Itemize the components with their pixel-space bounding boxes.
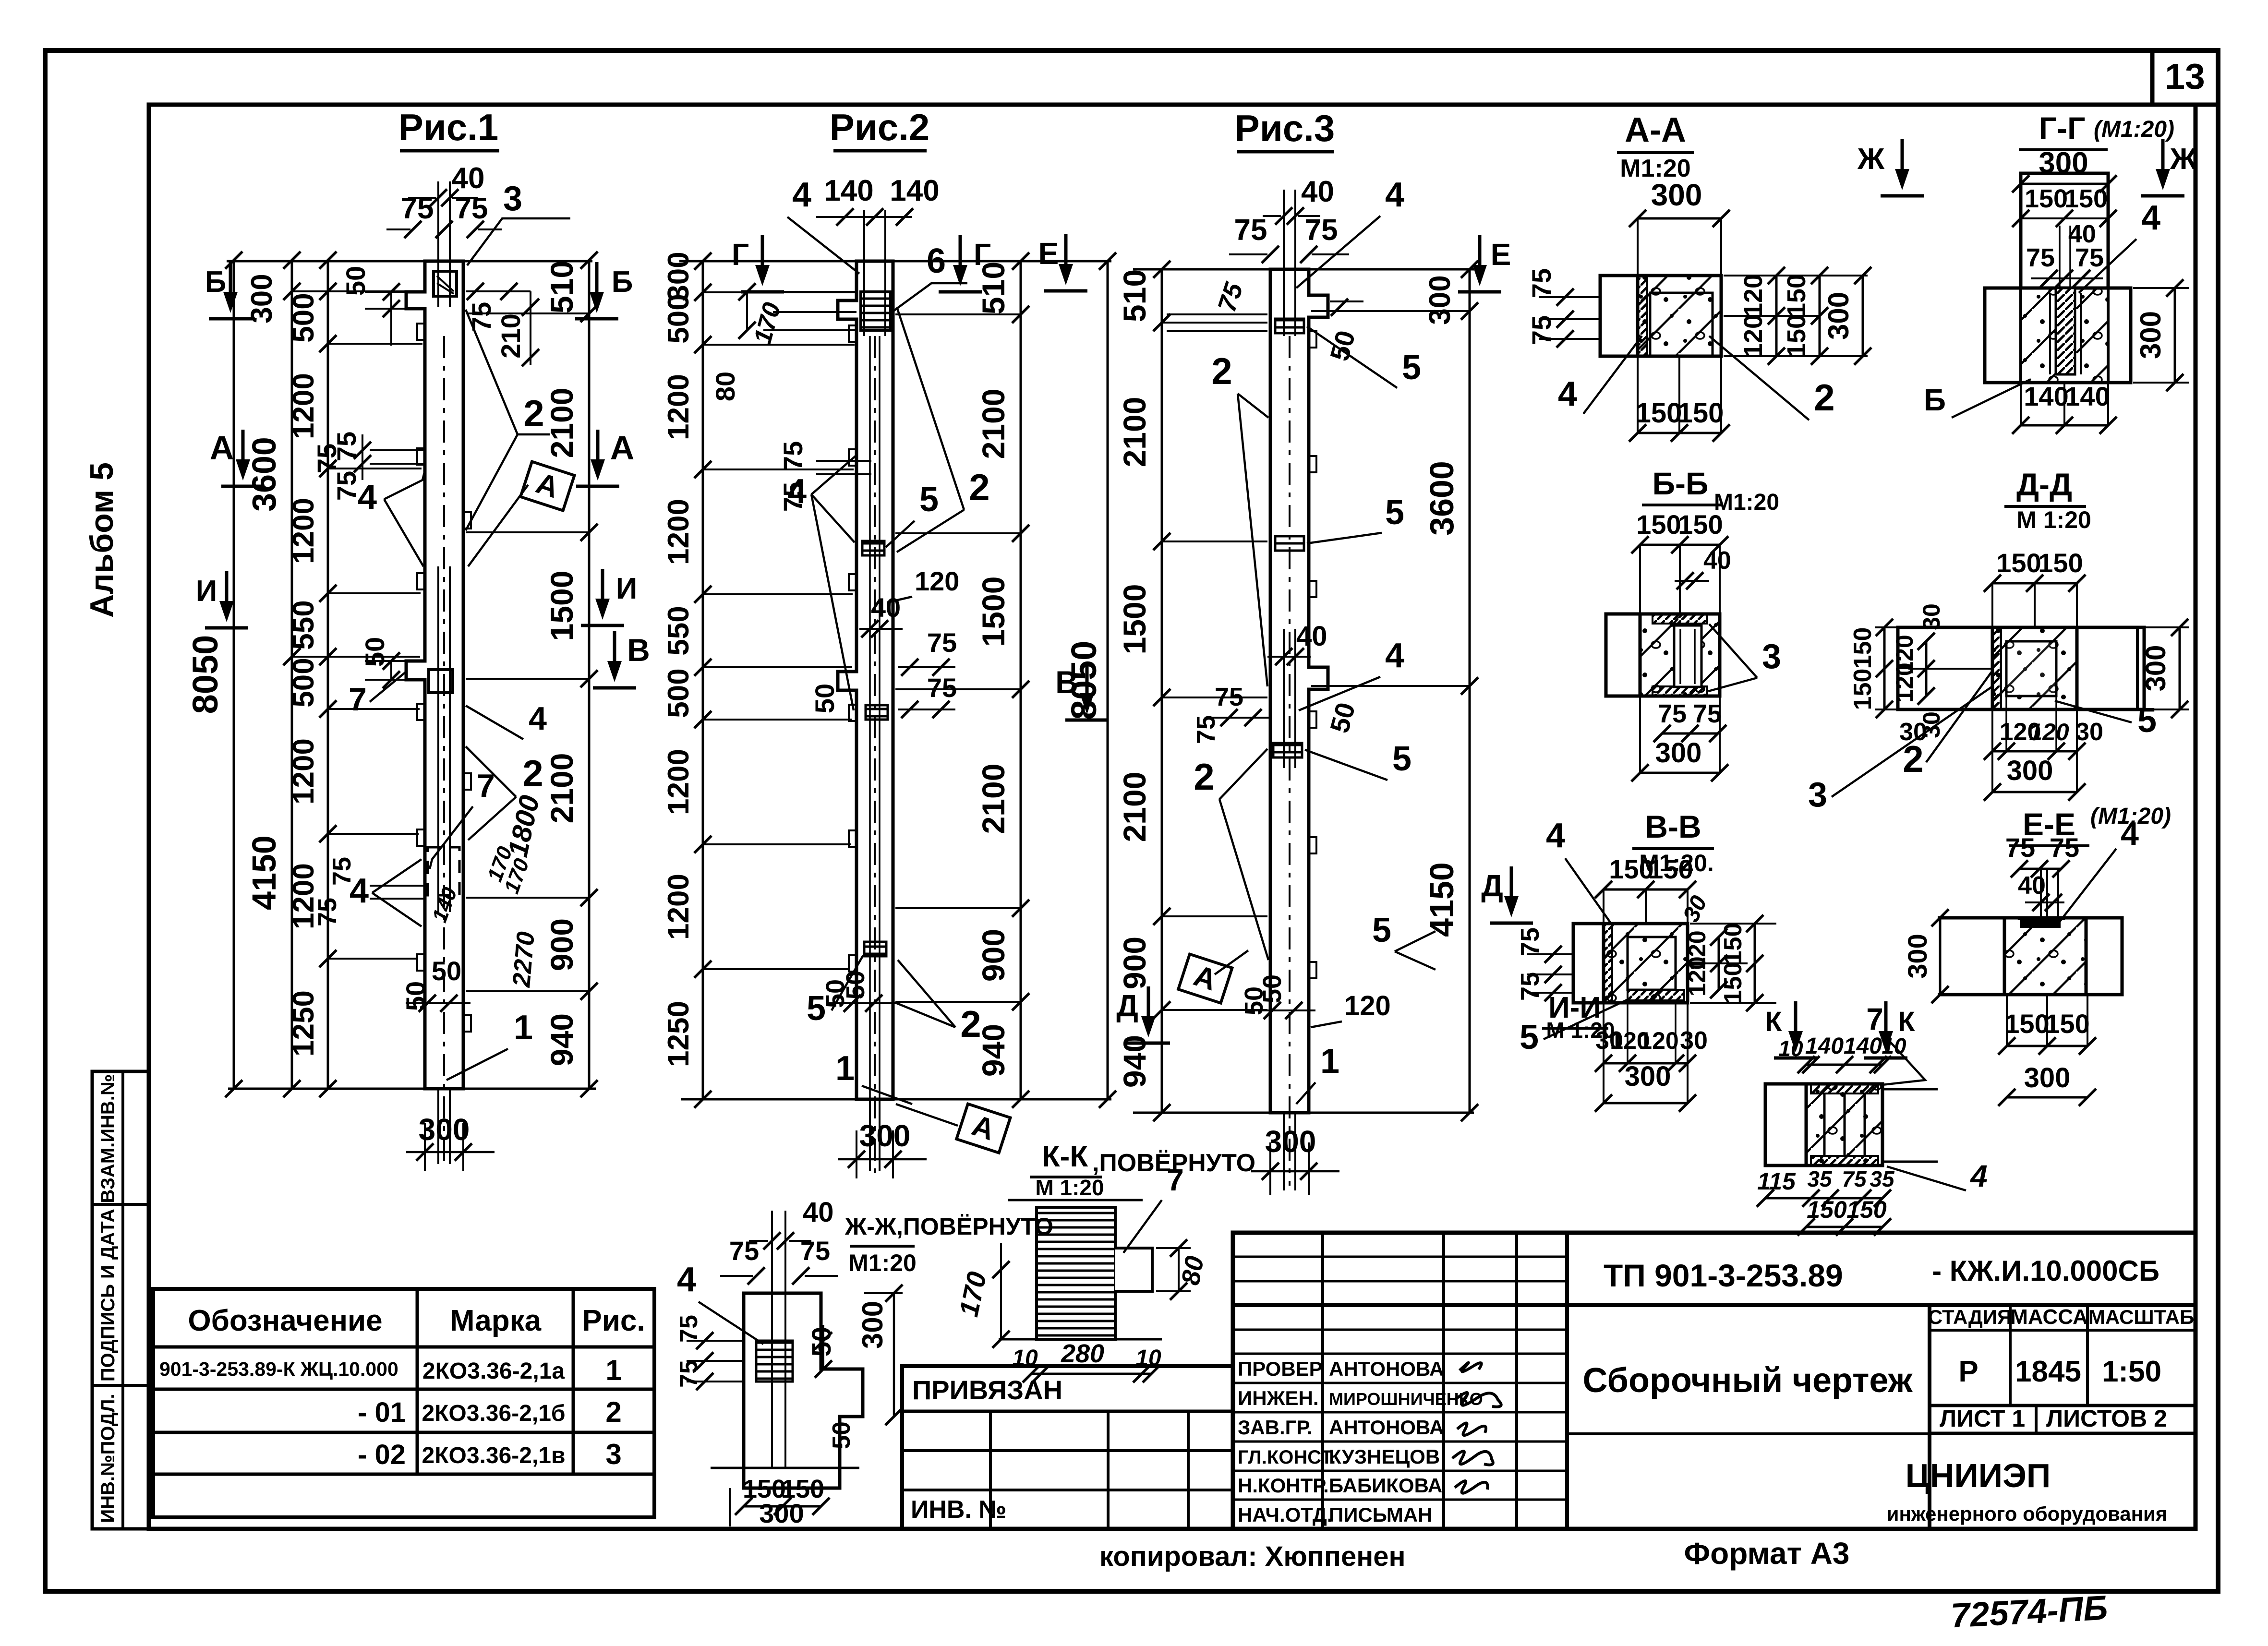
Г-Г right dim 300 [2133,287,2189,289]
svg-text:ИНВ.№ПОДЛ.: ИНВ.№ПОДЛ. [97,1394,119,1523]
svg-text:1200: 1200 [662,499,695,565]
svg-text:4: 4 [1558,375,1577,413]
svg-text:В: В [627,632,650,668]
svg-text:940: 940 [544,1013,579,1066]
svg-text:75: 75 [327,857,356,886]
svg-text:А: А [210,429,234,467]
svg-text:3: 3 [1808,776,1827,814]
svg-text:Р: Р [1958,1355,1978,1388]
Рис.1 overall dimension 8050 [233,260,235,1089]
svg-text:120: 120 [1891,662,1918,702]
svg-text:А-А: А-А [1625,111,1686,149]
svg-text:50: 50 [809,684,840,713]
А-А beam left part [1600,276,1638,356]
svg-text:1250: 1250 [287,990,320,1057]
svg-text:300: 300 [1902,934,1932,978]
svg-text:3600: 3600 [1423,461,1460,536]
svg-text:5: 5 [1392,740,1411,778]
title block: signature rows [1233,1382,1567,1384]
Рис.1 embedded bars (vertical thin lines) [437,181,439,307]
В-В right rotated dim chains [1690,923,1776,925]
svg-text:5: 5 [1402,348,1421,387]
svg-text:ПРОВЕР.: ПРОВЕР. [1238,1358,1325,1380]
svg-text:1500: 1500 [1117,584,1152,655]
Рис.3 Д marker left [1147,986,1150,1025]
svg-text:ЛИСТОВ 2: ЛИСТОВ 2 [2046,1405,2167,1432]
svg-text:75: 75 [1526,315,1556,345]
svg-text:МАСШТАБ: МАСШТАБ [2088,1306,2194,1328]
svg-text:4: 4 [792,176,811,214]
svg-text:150: 150 [1636,397,1682,429]
svg-text:1: 1 [605,1354,621,1386]
svg-text:7: 7 [1866,1002,1883,1036]
В-В concrete section [1604,924,1688,1003]
svg-text:- 02: - 02 [358,1439,406,1470]
svg-text:300: 300 [2140,645,2171,692]
Рис.2 left dimension chain [702,261,704,1099]
svg-text:И: И [616,572,638,605]
svg-text:901-3-253.89-К ЖЦ.10.000: 901-3-253.89-К ЖЦ.10.000 [159,1358,398,1380]
svg-text:ИНВ. №: ИНВ. № [911,1496,1006,1524]
svg-text:75: 75 [675,1315,703,1343]
svg-text:300: 300 [859,1118,911,1153]
Ж-Ж left dims 75 75 [687,1340,744,1342]
svg-text:А: А [610,429,635,467]
svg-text:М 1:20: М 1:20 [1035,1175,1104,1200]
svg-text:ВЗАМ.ИНВ.№: ВЗАМ.ИНВ.№ [97,1074,119,1203]
svg-text:К: К [1765,1006,1782,1037]
Рис.3 intermediate extension lines [1162,322,1267,324]
svg-text:35: 35 [1870,1166,1895,1191]
inner drawing frame [149,105,2196,1529]
svg-text:1200: 1200 [662,749,695,815]
Рис.1 section markers [229,262,232,300]
svg-text:2: 2 [1194,756,1214,798]
svg-text:7: 7 [349,681,367,718]
svg-text:120: 120 [915,566,959,596]
svg-text:К-К: К-К [1042,1140,1088,1173]
svg-text:Рис.1: Рис.1 [398,106,498,148]
Г-Г beam rect [1985,288,2131,383]
svg-text:140: 140 [1805,1033,1844,1059]
svg-text:ЗАВ.ГР.: ЗАВ.ГР. [1238,1416,1313,1439]
svg-text:М 1:20: М 1:20 [1546,1018,1615,1043]
svg-text:120: 120 [1684,956,1711,996]
svg-text:Б-Б: Б-Б [1653,466,1709,501]
svg-text:280: 280 [1061,1339,1104,1368]
svg-text:150: 150 [1782,314,1811,358]
svg-text:75: 75 [729,1236,759,1266]
svg-text:30: 30 [1680,1027,1708,1055]
parts table frame [153,1289,654,1517]
Б-Б concrete section [1640,614,1720,696]
Г-Г upper column part [2021,173,2108,288]
svg-text:Е: Е [1491,237,1511,272]
svg-text:СТАДИЯ: СТАДИЯ [1928,1306,2012,1328]
svg-text:МАССА: МАССА [2010,1305,2088,1329]
Рис.1 mid connector dashed box (item 7) [428,847,459,895]
Рис.1 dimension chain 300..1250 [327,260,329,1089]
svg-text:75: 75 [1693,699,1722,728]
svg-text:75: 75 [1234,214,1267,247]
svg-text:2: 2 [1814,376,1834,419]
Д-Д right dim 300 [2141,626,2189,628]
svg-text:Г: Г [974,237,991,272]
svg-text:3: 3 [503,180,522,218]
svg-text:210: 210 [495,313,526,358]
Е-Е right beam part [2086,918,2122,995]
svg-text:2: 2 [522,752,543,794]
В-В left 75/75 dims [1527,953,1573,955]
Рис.1 right dimension chain 510..940 [588,260,591,1089]
svg-text:300: 300 [2007,755,2053,786]
svg-text:1250: 1250 [662,1001,695,1067]
svg-text:Б: Б [205,265,227,299]
svg-text:2100: 2100 [1117,772,1152,842]
svg-text:5: 5 [807,989,826,1028]
svg-text:4: 4 [1546,817,1565,855]
svg-text:Д-Д: Д-Д [2016,467,2072,502]
И-И left beam part [1765,1084,1806,1165]
Д-Д steel strip left [1992,627,2001,709]
svg-text:ГЛ.КОНСТ.: ГЛ.КОНСТ. [1238,1447,1336,1468]
svg-text:75: 75 [2075,243,2104,272]
К-К plate outline with hatch [1037,1207,1115,1339]
svg-text:140: 140 [824,174,873,207]
svg-text:Формат А3: Формат А3 [1684,1536,1850,1571]
svg-text:300: 300 [1822,292,1855,340]
Е-Е left beam lines [1938,916,2004,920]
svg-text:150: 150 [1677,397,1724,429]
Рис.1 bottom tails [437,1089,439,1164]
Е-Е top plate mark [2021,920,2060,927]
А-А bottom dims 150 150 [1637,356,1639,433]
svg-text:120: 120 [1739,274,1768,317]
svg-text:2100: 2100 [976,389,1011,459]
svg-text:Рис.3: Рис.3 [1235,107,1335,149]
svg-text:4: 4 [529,700,547,737]
Рис.3 top extension line [1133,268,1474,271]
Ж-Ж embedded plate (hatched) [756,1341,793,1382]
В-В beam left part [1573,924,1604,1003]
Рис.1 item 3 leader [467,218,570,265]
svg-text:Г: Г [732,237,749,272]
svg-text:1200: 1200 [287,373,320,439]
svg-text:150: 150 [1849,627,1877,669]
Рис.1 right top detail dims 75 / 210 / 510 [466,290,531,292]
Б-Б inner core [1674,625,1701,687]
svg-text:Ж: Ж [1857,143,1885,176]
svg-text:300: 300 [2135,311,2167,359]
svg-text:150: 150 [1648,854,1693,884]
svg-text:80: 80 [1176,1254,1210,1287]
svg-text:8050: 8050 [185,635,225,714]
svg-text:80: 80 [710,372,740,401]
svg-text:1: 1 [514,1009,533,1047]
svg-text:30: 30 [1918,603,1945,630]
svg-text:1:50: 1:50 [2102,1355,2161,1388]
svg-text:150: 150 [1609,854,1653,884]
svg-text:3: 3 [605,1438,621,1470]
В-В inner core [1628,937,1676,990]
svg-text:НАЧ.ОТД.: НАЧ.ОТД. [1238,1503,1333,1526]
svg-text:75: 75 [675,1360,703,1388]
svg-text:120: 120 [1739,314,1768,358]
svg-text:ПИСЬМАН: ПИСЬМАН [1329,1503,1433,1526]
svg-text:2: 2 [969,466,989,508]
svg-text:150: 150 [1996,548,2041,578]
svg-text:Рис.: Рис. [582,1304,645,1337]
svg-text:150: 150 [2004,1009,2049,1039]
svg-text:ЛИСТ 1: ЛИСТ 1 [1940,1405,2025,1432]
svg-text:75: 75 [1842,1166,1867,1191]
svg-text:ЦНИИЭП: ЦНИИЭП [1906,1457,2051,1494]
Рис.1 dimension chain 300/3600/4150 [291,260,293,1089]
svg-text:500: 500 [662,294,695,343]
Рис.2 bottom extension line [681,1098,1111,1101]
svg-text:МИРОШНИЧЕНКО: МИРОШНИЧЕНКО [1329,1389,1483,1409]
К-К top break line [1008,1199,1143,1201]
svg-text:150: 150 [2038,548,2083,578]
svg-text:50: 50 [360,637,390,667]
svg-text:Д: Д [1116,988,1138,1023]
Рис.2 left top detail dims 170/80/170 [763,291,857,293]
Рис.3 lower-left marker В [1086,663,1089,702]
svg-text:75: 75 [466,302,496,332]
svg-text:Обозначение: Обозначение [188,1304,382,1337]
svg-text:4: 4 [2141,199,2160,237]
svg-text:72574-ПБ: 72574-ПБ [1950,1589,2109,1635]
svg-text:КУЗНЕЦОВ: КУЗНЕЦОВ [1329,1445,1440,1468]
Рис.2 embedded channel lines [863,210,865,336]
svg-text:Н.КОНТР.: Н.КОНТР. [1238,1474,1329,1497]
svg-text:(М1:20): (М1:20) [2094,117,2174,142]
Рис.1 top extension line [227,260,592,263]
svg-text:ПОДПИСЬ И ДАТА: ПОДПИСЬ И ДАТА [97,1209,119,1382]
Рис.3 column axis centerline [1289,336,1291,1186]
Рис.2 section view diamond А [896,1104,958,1126]
И-И right connection lines [1882,1088,1938,1091]
Г-Г inner plates [2056,288,2075,374]
В-В Д section marker [1510,866,1513,905]
svg-text:М 1:20: М 1:20 [2016,506,2091,533]
Рис.1 mid-left protruding bars with 75/75 dims [370,449,425,451]
svg-text:300: 300 [245,274,278,323]
svg-text:75: 75 [927,627,957,658]
svg-text:1200: 1200 [287,498,320,564]
Е-Е left dim 300 [1939,918,1942,995]
svg-text:75: 75 [331,471,362,501]
svg-text:300: 300 [1655,737,1702,769]
title block: document number row [1233,1303,2196,1307]
svg-text:900: 900 [976,929,1011,982]
svg-text:75: 75 [1192,715,1220,744]
svg-text:140: 140 [1844,1033,1882,1059]
svg-text:75: 75 [313,898,342,926]
Рис.2 Е section marker right [1064,234,1068,273]
svg-text:2100: 2100 [1117,397,1152,468]
svg-text:75: 75 [1215,683,1243,711]
Б-Б top/bottom plate strips [1653,614,1707,624]
svg-text:75: 75 [312,444,342,473]
Б-Б beam left part [1606,614,1640,696]
svg-text:Д: Д [1481,868,1503,903]
svg-text:900: 900 [544,918,579,971]
И-И inner bars [1823,1093,1826,1156]
А-А steel edge strip [1638,276,1647,356]
svg-text:В-В: В-В [1645,809,1701,844]
parts table column lines [416,1289,419,1474]
Рис.2 mid 75/75 protruding bars [816,460,871,462]
Рис.2 column axis centerline [874,336,876,1176]
Рис.3 section view diamond А [1215,950,1248,974]
svg-text:- КЖ.И.10.000СБ: - КЖ.И.10.000СБ [1932,1255,2159,1287]
svg-text:2100: 2100 [976,764,1011,834]
sheet number box 13 [2152,50,2218,105]
svg-text:1200: 1200 [287,738,320,805]
svg-text:2100: 2100 [544,753,579,824]
Ж-Ж corner outline [744,1293,863,1488]
Рис.2 column outline [838,261,893,1099]
А-А left 75/75 dims [1539,296,1600,298]
svg-text:150: 150 [1719,962,1747,1004]
svg-text:2: 2 [1903,738,1923,780]
Рис.2 intermediate extension lines [703,291,855,293]
Рис.3 right dimension chain 300/3600/4150 [1469,269,1471,1113]
И-И top/bottom plate strips [1811,1084,1878,1093]
binding table frame [902,1366,1233,1529]
svg-text:150: 150 [1678,509,1723,540]
svg-text:2100: 2100 [544,388,579,458]
Ж-Ж bottom break and dims 150 150 / 300 [711,1467,859,1469]
svg-text:1845: 1845 [2015,1355,2081,1388]
svg-text:2: 2 [605,1396,621,1428]
svg-text:75: 75 [1658,699,1687,728]
svg-text:Г-Г: Г-Г [2039,110,2086,146]
svg-text:ПРИВЯЗАН: ПРИВЯЗАН [912,1375,1062,1405]
title block: left signature grid verticals [1321,1233,1324,1529]
svg-text:- 01: - 01 [358,1397,406,1428]
svg-text:М1:20: М1:20 [848,1250,917,1276]
Ж-Ж vertical bars [771,1211,773,1468]
И-И hatched section [1806,1084,1882,1165]
svg-text:50: 50 [1258,974,1287,1003]
parts table row lines [153,1346,654,1349]
left margin stamp column frame [92,1071,149,1529]
title block: СТАДИЯ/МАССА/МАСШТАБ header [1930,1329,2196,1332]
svg-text:75: 75 [1305,214,1338,247]
svg-text:900: 900 [1117,937,1152,989]
svg-text:1200: 1200 [662,874,695,940]
svg-text:120: 120 [1639,1027,1678,1054]
svg-text:550: 550 [287,600,320,649]
svg-text:Рис.2: Рис.2 [830,106,929,148]
svg-text:2: 2 [1211,350,1232,392]
svg-text:13: 13 [2165,56,2205,96]
Рис.3 rebar hook marks [1309,331,1316,348]
svg-text:5: 5 [2137,701,2157,740]
svg-text:300: 300 [1424,275,1457,324]
В-В steel strip left edge [1604,924,1612,1003]
Д-Д concrete section [1992,627,2077,709]
И-И К section markers [1794,1001,1798,1040]
svg-text:140: 140 [2065,381,2110,411]
svg-text:115: 115 [1757,1168,1796,1195]
svg-text:50: 50 [432,956,461,986]
signatures (handwritten squiggles) [1460,1363,1482,1372]
svg-text:4: 4 [1969,1159,1988,1193]
svg-text:75: 75 [778,441,808,471]
Рис.2 top extension line [679,260,1111,263]
svg-text:300: 300 [662,252,695,301]
Рис.3 embedded bars [1283,190,1285,336]
Рис.3 bottom extension line [1133,1112,1474,1114]
svg-text:АНТОНОВА: АНТОНОВА [1329,1416,1444,1439]
svg-text:75: 75 [1526,268,1556,298]
В-В bottom plate strip [1628,990,1684,1000]
Рис.1 section view diamond А [468,485,528,566]
svg-text:4150: 4150 [1423,862,1460,937]
Г-Г concrete infill [2021,288,2108,383]
svg-text:Сборочный чертеж: Сборочный чертеж [1583,1361,1913,1400]
svg-text:10: 10 [1778,1036,1803,1061]
svg-text:150: 150 [1782,274,1811,317]
К-К bottom base line [999,1338,1162,1341]
Рис.3 connector item 5 boxes (hatched) [1275,319,1304,333]
Рис.2 connector item 5 boxes [862,541,884,555]
Е-Е protruding bars [2040,869,2042,926]
svg-text:АНТОНОВА: АНТОНОВА [1329,1358,1444,1380]
svg-text:5: 5 [1520,1018,1539,1057]
svg-text:500: 500 [662,668,695,718]
Рис.2 item 6 leader [892,283,967,312]
svg-text:М1:20: М1:20 [1714,490,1779,515]
Рис.3 bottom tails [1283,1113,1285,1190]
svg-text:2КО3.36-2,1в: 2КО3.36-2,1в [422,1443,566,1468]
Рис.1 top embedded plate (item 3) [434,271,457,296]
А-А concrete section [1638,276,1721,356]
К-К right notch [1115,1248,1152,1291]
svg-text:К: К [1898,1006,1915,1037]
Рис.1 column outline [406,261,463,1089]
svg-text:150: 150 [2064,184,2108,213]
svg-text:140: 140 [890,174,939,207]
svg-text:5: 5 [919,481,939,519]
svg-text:2: 2 [960,1003,981,1045]
svg-text:5: 5 [1372,911,1391,949]
svg-text:7: 7 [1167,1163,1184,1197]
svg-text:4: 4 [1385,637,1404,675]
svg-text:2270: 2270 [507,930,540,988]
svg-text:300: 300 [2024,1062,2071,1093]
Рис.3 Е section markers [1478,235,1482,274]
svg-text:300: 300 [419,1112,470,1147]
svg-text:Б: Б [1924,383,1946,417]
svg-text:40: 40 [1301,175,1334,208]
Рис.2 top connector plate item 6 (hatched) [861,292,891,330]
Рис.2 Г section markers [761,235,764,274]
svg-text:инженерного оборудования: инженерного оборудования [1887,1502,2168,1525]
svg-text:50: 50 [400,981,431,1011]
title block: name cell Сборочный чертеж [1928,1305,1931,1529]
svg-text:300: 300 [857,1301,889,1349]
svg-text:2КО3.36-2,1а: 2КО3.36-2,1а [422,1358,565,1384]
svg-text:150: 150 [1719,923,1747,965]
svg-text:500: 500 [287,293,320,342]
svg-text:4: 4 [677,1261,696,1299]
svg-text:3: 3 [1762,637,1781,676]
Рис.1 mid plate box [429,670,453,693]
